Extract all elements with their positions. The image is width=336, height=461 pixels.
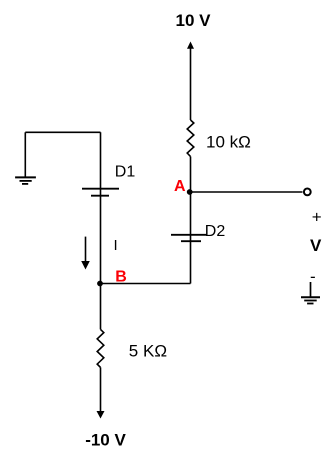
arrow to -10 V supply xyxy=(97,367,105,418)
wire left top horizontal (ground to D1 branch) xyxy=(25,131,100,133)
arrow to +10 V supply xyxy=(187,42,194,121)
node B junction dot xyxy=(97,281,103,287)
wire resistor R1 to node A xyxy=(190,157,192,193)
ground (left) xyxy=(15,177,36,184)
output terminal (open circle) xyxy=(304,189,311,196)
svg-text:-10 V: -10 V xyxy=(85,431,126,450)
wire left branch vertical through D1 to node B xyxy=(100,132,102,283)
wire down to left ground xyxy=(24,132,26,177)
wire node A through D2 down to node B level xyxy=(190,192,192,284)
svg-text:B: B xyxy=(115,268,127,285)
svg-text:V: V xyxy=(310,236,322,255)
svg-text:10 kΩ: 10 kΩ xyxy=(206,132,251,151)
wire node B to D2 branch xyxy=(101,283,191,285)
svg-text:D1: D1 xyxy=(115,164,136,181)
svg-text:+: + xyxy=(312,207,322,226)
resistor R2 xyxy=(97,329,104,367)
resistor R1 xyxy=(187,120,194,157)
diode D1 (bars) xyxy=(82,189,119,196)
current arrow I xyxy=(81,237,90,270)
svg-text:5 KΩ: 5 KΩ xyxy=(129,342,167,361)
svg-text:D2: D2 xyxy=(205,223,226,240)
node A junction dot xyxy=(187,189,193,195)
svg-text:I: I xyxy=(114,237,118,254)
svg-text:A: A xyxy=(174,178,186,195)
diode D2 (bars) xyxy=(171,235,208,241)
svg-text:10 V: 10 V xyxy=(176,11,212,30)
wire node A to output terminal xyxy=(191,191,303,193)
wire node B to resistor R2 xyxy=(100,284,102,330)
ground (right) xyxy=(301,282,320,304)
